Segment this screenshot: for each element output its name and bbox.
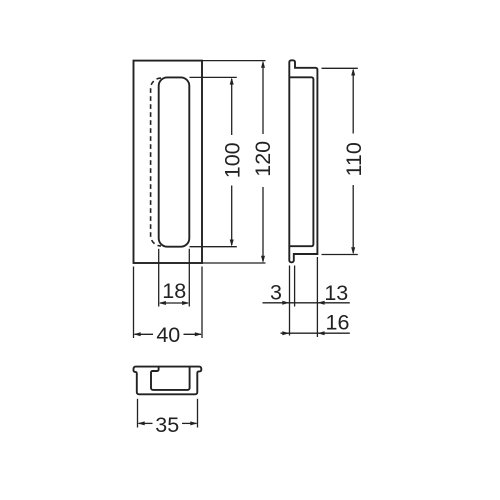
dim 120 arrow up — [261, 61, 265, 68]
dim 110 arrow down — [351, 247, 355, 254]
svg-text:120: 120 — [251, 141, 275, 177]
dim 110 line — [352, 70, 354, 134]
dim 35 extension left — [137, 399, 139, 428]
dim 35 arrow right — [190, 421, 197, 425]
dim 40 arrow left — [134, 332, 141, 336]
dim 40 extension left — [133, 267, 135, 339]
dim 35 line — [139, 422, 153, 424]
recess opening (front view) — [159, 77, 190, 246]
dim 18 line — [160, 302, 188, 304]
dim 16 arrow left — [282, 331, 289, 335]
dim 120 line — [262, 62, 264, 134]
side view outer profile — [289, 60, 317, 262]
dim 3 arrow — [282, 301, 289, 305]
dim 100 extension bottom — [190, 246, 237, 248]
hidden cavity dashed edge — [151, 78, 161, 246]
bottom view outer outline — [134, 367, 202, 395]
dim 110 extension bottom — [322, 254, 358, 256]
dim 3/13 line — [263, 302, 350, 304]
dim 110 arrow up — [351, 68, 355, 75]
dim 120 extension top — [202, 60, 266, 62]
dim 3/13 extension a — [289, 266, 291, 336]
dim 13 arrow — [317, 301, 324, 305]
dim 18 extension right — [188, 249, 190, 307]
dim 35 arrow left — [138, 421, 145, 425]
svg-text:3: 3 — [270, 281, 282, 305]
dim 100 arrow up — [230, 77, 234, 84]
dim 100 line — [231, 79, 233, 135]
dim 40 line — [135, 333, 154, 335]
svg-text:110: 110 — [342, 142, 366, 176]
svg-text:35: 35 — [155, 413, 179, 437]
dim 18 arrow right — [182, 301, 189, 305]
bottom view inner outline — [151, 367, 190, 390]
dim 40 arrow right — [195, 332, 202, 336]
dim 40 extension right — [201, 267, 203, 339]
dim 18 extension left — [158, 249, 160, 307]
dim 3/13 extension b — [294, 266, 296, 307]
dim 100 arrow down — [230, 240, 234, 247]
front view outer plate — [134, 61, 203, 263]
dim 35 extension right — [197, 399, 199, 428]
svg-text:40: 40 — [156, 323, 180, 347]
dim 100 extension top — [190, 76, 237, 78]
svg-text:100: 100 — [220, 142, 244, 178]
dim 18 arrow left — [159, 301, 166, 305]
dim 120 arrow down — [261, 256, 265, 263]
dim 13/16 extension c — [316, 257, 318, 337]
dim 16 arrow right — [317, 331, 324, 335]
dim 120 extension bottom — [202, 262, 266, 264]
dim 16 line — [281, 332, 350, 334]
svg-text:18: 18 — [162, 279, 186, 303]
svg-text:13: 13 — [324, 281, 348, 305]
side view inner cavity lines — [289, 77, 313, 246]
dim 110 extension top — [322, 67, 358, 69]
svg-text:16: 16 — [326, 311, 350, 335]
